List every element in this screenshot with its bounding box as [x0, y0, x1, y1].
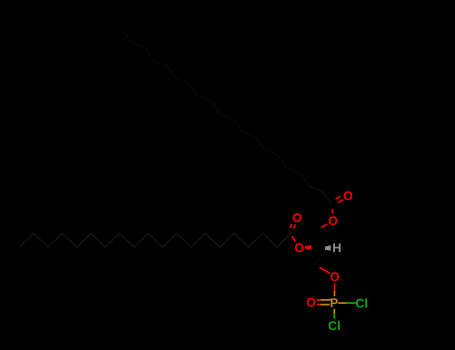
stereo wedge C2 side gray half	[325, 245, 331, 250]
svg-text:H: H	[332, 241, 341, 255]
ester 1 carbonyl double bond C=O (red halves)	[336, 196, 344, 202]
svg-text:O: O	[330, 270, 340, 284]
svg-text:P: P	[330, 296, 338, 310]
svg-text:O: O	[294, 241, 304, 255]
bond P-Cl right (gold half)	[338, 302, 346, 304]
svg-text:O: O	[328, 214, 338, 228]
acyl chain 2 (sn-2, long horizontal zigzag to left)	[20, 233, 292, 248]
bond O1-C1 (red stub down-left)	[321, 224, 327, 227]
svg-text:Cl: Cl	[328, 319, 341, 333]
bond P-Cl down (green half)	[333, 314, 335, 319]
bond O3-P (gold part)	[334, 291, 336, 297]
acyl chain 1 (sn-1, long diagonal zigzag to upper left)	[309, 186, 331, 204]
bond P-Cl right (green half)	[346, 302, 356, 304]
svg-text:Cl: Cl	[355, 297, 368, 311]
acyl chain 1 upper part (very faint)	[123, 30, 310, 186]
stereo wedge O2-C2 red half	[305, 245, 311, 250]
bond C2'-O2 (red)	[292, 236, 295, 241]
svg-text:O: O	[292, 211, 302, 225]
bond C3-O3 (red stub)	[319, 267, 330, 273]
bond P-Cl down (gold half)	[333, 309, 335, 314]
P=O double bond (gold halves)	[321, 300, 331, 305]
P=O double bond (red halves)	[317, 300, 321, 305]
bond C1'-O1 (vertical red)	[331, 209, 333, 214]
svg-text:O: O	[343, 189, 353, 203]
ester 2 carbonyl double bond C=O (red halves)	[290, 224, 296, 229]
svg-text:O: O	[306, 296, 316, 310]
glycerol backbone carbon bonds (carbon coloured, near-invisible on black)	[314, 230, 331, 264]
bond O3-P (red part)	[334, 283, 336, 290]
